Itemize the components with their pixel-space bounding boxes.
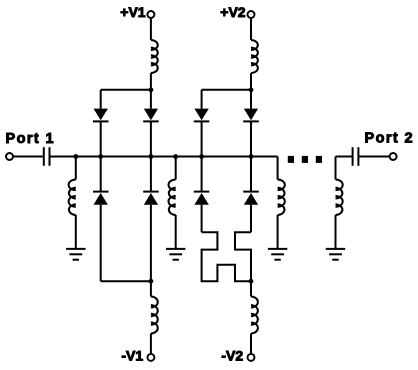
svg-text:+V1: +V1 xyxy=(120,4,146,20)
ground G4 xyxy=(326,249,345,260)
node A junction xyxy=(73,154,78,159)
diode D7 xyxy=(194,192,210,205)
svg-text:-V1: -V1 xyxy=(121,348,143,364)
inductor L1 xyxy=(69,180,76,216)
wire D8 to meander xyxy=(250,205,252,233)
wire node E to D7 xyxy=(201,157,203,192)
wire D4 to bottom rail xyxy=(150,205,152,282)
wire D6 to node F xyxy=(250,121,252,156)
wire D1 to node B xyxy=(100,121,102,156)
ground G2 xyxy=(166,249,185,260)
inductor L7 xyxy=(251,40,258,73)
node E junction xyxy=(199,154,204,159)
inductor L6 xyxy=(151,297,158,334)
node C junction xyxy=(149,154,154,159)
node F junction xyxy=(249,154,254,159)
wire node A to L1 xyxy=(75,157,77,180)
ground G3 xyxy=(268,249,287,260)
wire D2 to node C xyxy=(150,121,152,156)
wire node B to D3 xyxy=(100,157,102,192)
diode D6 xyxy=(243,109,259,122)
wire node F to D8 xyxy=(250,157,252,192)
wire L2 to ground xyxy=(175,215,177,249)
inductor L2 xyxy=(169,180,176,216)
node rail1 junction xyxy=(149,87,154,92)
wire C2 to P2 xyxy=(358,156,389,158)
diode D4 xyxy=(143,192,159,205)
diode D1 xyxy=(93,109,109,122)
wire main line A-B xyxy=(76,156,101,158)
wire +V1 to L5 xyxy=(150,18,152,40)
terminal +V1 xyxy=(147,11,154,18)
diode D8 xyxy=(243,192,259,205)
inductor L4 xyxy=(336,180,343,216)
diode D3 xyxy=(93,192,109,205)
wire top rail stage 2 xyxy=(202,90,251,109)
wire bottom rail stage 1 xyxy=(101,280,151,282)
wire +V2 to L7 xyxy=(250,18,252,40)
svg-text:+V2: +V2 xyxy=(220,4,246,20)
svg-text:-V2: -V2 xyxy=(221,348,243,364)
wire rail2 to L6 xyxy=(150,281,152,296)
terminal +V2 xyxy=(248,11,255,18)
node B junction xyxy=(98,154,103,159)
-V2 label xyxy=(221,348,243,364)
node rail4 junction xyxy=(249,279,254,284)
wire rail4 to L8 xyxy=(250,281,252,296)
wire meander delay line xyxy=(202,232,251,281)
terminal -V1 xyxy=(147,354,154,361)
wire rail3 to D6 xyxy=(250,90,252,109)
svg-text:Port 1: Port 1 xyxy=(6,131,56,147)
wire L8 to -V2 xyxy=(250,334,252,354)
+V2 label xyxy=(220,4,246,20)
wire P1 to C1 xyxy=(13,156,44,158)
wire D7 to meander xyxy=(201,205,203,233)
wire main line C-D xyxy=(151,156,176,158)
wire main line F to L3 xyxy=(251,157,278,180)
svg-text:Port 2: Port 2 xyxy=(365,131,415,147)
port P1 terminal xyxy=(6,153,13,160)
port P2 terminal xyxy=(390,153,397,160)
wire L6 to -V1 xyxy=(150,334,152,354)
inductor L5 xyxy=(151,40,158,73)
diode D5 xyxy=(194,109,210,122)
wire node C to D4 xyxy=(150,157,152,192)
wire main line E-F xyxy=(202,156,251,158)
wire rail1 to D2 xyxy=(150,90,152,109)
inductor L8 xyxy=(251,297,258,334)
node rail2 junction xyxy=(149,279,154,284)
capacitor C2 xyxy=(353,147,359,166)
node D junction xyxy=(173,154,178,159)
-V1 label xyxy=(121,348,143,364)
wire node D to L2 xyxy=(175,157,177,180)
wire top rail stage 1 xyxy=(101,90,151,109)
wire L3 to ground xyxy=(277,215,279,249)
wire L4 to ground xyxy=(335,215,337,249)
wire main line D-E xyxy=(176,156,202,158)
+V1 label xyxy=(120,4,146,20)
wire D5 to node E xyxy=(201,121,203,156)
terminal -V2 xyxy=(248,354,255,361)
Port 1 label xyxy=(6,131,56,147)
wire main line B-C xyxy=(101,156,151,158)
wire D3 to bottom rail xyxy=(100,205,102,282)
capacitor C1 xyxy=(44,147,50,166)
ground G1 xyxy=(66,249,85,260)
inductor L3 xyxy=(278,180,285,216)
node rail3 junction xyxy=(249,87,254,92)
wire L1 to ground xyxy=(75,215,77,249)
wire L5 to rail xyxy=(150,73,152,90)
wire L4 to C2 xyxy=(336,157,353,180)
wire C1 to node A xyxy=(50,156,76,158)
Port 2 label xyxy=(365,131,415,147)
wire L7 to rail xyxy=(250,73,252,90)
ellipsis dots xyxy=(288,156,322,163)
diode D2 xyxy=(143,109,159,122)
